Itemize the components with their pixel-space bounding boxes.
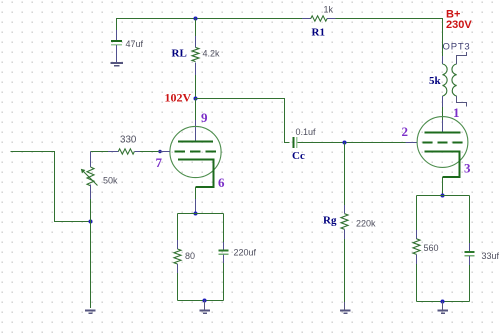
- svg-text:9: 9: [201, 110, 208, 125]
- tube V1 cathode: [178, 160, 214, 187]
- wire bypass ground stem: [204, 301, 206, 311]
- resistor 80 pin top: [177, 240, 179, 249]
- tube V2 grid (dashed): [423, 142, 463, 144]
- wire V2 network top rail: [417, 195, 470, 197]
- capacitor 47uf plates: [111, 41, 122, 45]
- resistor RL pin top: [195, 36, 197, 48]
- capacitor 33uf pin top: [469, 243, 471, 252]
- svg-text:Cc: Cc: [292, 150, 305, 162]
- resistor R1 1k zigzag: [311, 16, 327, 21]
- wire 330 to grid V1: [140, 151, 159, 153]
- ground V2 network: [438, 311, 449, 314]
- transformer OPT3 primary pin top: [442, 56, 444, 64]
- svg-text:Rg: Rg: [323, 215, 337, 227]
- wire bypass right branch bottom: [223, 263, 225, 301]
- junction Rg top node: [343, 141, 347, 145]
- pot 50k pin top: [90, 152, 92, 168]
- resistor 330 zigzag: [118, 149, 134, 154]
- wire plate node to Cc: [196, 99, 290, 143]
- transformer OPT3 secondary lead top: [457, 52, 467, 64]
- svg-text:50k: 50k: [103, 176, 118, 186]
- svg-text:2: 2: [402, 124, 409, 139]
- wire Rg to ground: [344, 239, 346, 303]
- wire plate lead tube V1: [195, 99, 197, 121]
- wire bypass bottom rail: [178, 300, 224, 302]
- tube V1 plate: [178, 141, 213, 143]
- ground under Rg: [340, 311, 351, 314]
- junction bypass ground: [203, 299, 207, 303]
- svg-text:220k: 220k: [356, 219, 376, 229]
- pin plate tube V2: [442, 120, 444, 133]
- resistor 560 pin top: [416, 230, 418, 239]
- wire Rg branch: [344, 143, 346, 207]
- resistor Rg pin bottom: [344, 229, 346, 239]
- resistor RL 4.2k zigzag: [192, 47, 199, 61]
- wire V2 network ground stem: [442, 302, 444, 311]
- capacitor Cc plates: [294, 137, 297, 148]
- tube V1 grid (dashed): [175, 151, 217, 153]
- tube V2 cathode: [425, 152, 460, 177]
- junction V2 network ground: [441, 300, 445, 304]
- wire V1 cathode to pin: [195, 187, 197, 200]
- svg-text:4.2k: 4.2k: [203, 49, 221, 59]
- wire V2 network left branch top: [416, 196, 418, 232]
- pin junction marker V1 grid: [158, 150, 161, 153]
- pot 50k wiper arrow: [81, 169, 98, 186]
- svg-text:1k: 1k: [324, 5, 334, 15]
- wire pot top to 330: [91, 151, 109, 153]
- svg-text:220uf: 220uf: [234, 248, 257, 258]
- junction top of RL: [194, 17, 198, 21]
- capacitor 47uf pin bottom: [116, 45, 118, 63]
- resistor 330 pin right: [134, 151, 140, 153]
- transformer OPT3 secondary lead bottom: [457, 96, 467, 107]
- capacitor 33uf plates: [465, 252, 475, 256]
- wire RL to 102V node: [195, 75, 197, 99]
- svg-text:80: 80: [185, 251, 195, 261]
- wire bypass right branch top: [223, 214, 225, 244]
- resistor R1 pin left: [302, 18, 311, 20]
- pin grid tube V1: [159, 151, 171, 153]
- svg-text:5k: 5k: [429, 75, 442, 87]
- pot 50k pin bottom: [90, 184, 92, 199]
- wire V2 network left branch bottom: [416, 264, 418, 302]
- wire down to RL: [195, 19, 197, 38]
- svg-text:230V: 230V: [446, 19, 472, 31]
- wire bypass network top rail: [178, 213, 224, 215]
- resistor 560 zigzag: [413, 239, 420, 255]
- transformer OPT3 secondary winding: [452, 64, 457, 96]
- resistor R1 pin right: [327, 18, 335, 20]
- svg-text:102V: 102V: [165, 91, 192, 105]
- ground under pot: [85, 311, 96, 314]
- capacitor 33uf pin bottom: [469, 256, 471, 265]
- ground under 47uf: [111, 63, 124, 66]
- tube V2 envelope: [417, 117, 468, 168]
- junction cathode network top: [194, 212, 198, 216]
- svg-text:3: 3: [464, 161, 471, 176]
- wire Cc to Rg node and V2 grid: [298, 142, 406, 144]
- tube V1 envelope: [170, 126, 221, 177]
- tube V1 cathode pin to bypass network: [195, 199, 197, 214]
- svg-text:OPT3: OPT3: [443, 42, 471, 53]
- transformer OPT3 primary pin bottom: [442, 96, 444, 107]
- resistor RL pin bottom: [195, 62, 197, 75]
- resistor 80 pin bottom: [177, 264, 179, 273]
- wire top bus left of R1: [117, 19, 303, 32]
- wire bypass left branch bottom: [177, 273, 179, 301]
- svg-text:0.1uf: 0.1uf: [296, 127, 317, 137]
- wire input left: [11, 152, 91, 222]
- junction 102V node: [194, 97, 198, 101]
- svg-text:33uf: 33uf: [482, 251, 500, 261]
- wire pot to ground: [90, 199, 92, 308]
- wire top bus right of R1: [336, 19, 443, 57]
- wire V2 cathode to network: [442, 177, 444, 196]
- svg-text:560: 560: [424, 243, 439, 253]
- wire V2 network right branch bottom: [469, 265, 471, 302]
- pin plate tube V1: [195, 120, 197, 142]
- wire V2 network bottom rail: [417, 301, 470, 303]
- resistor 330 pin left: [108, 151, 118, 153]
- svg-text:47uf: 47uf: [126, 39, 144, 49]
- junction pot bottom: [89, 220, 93, 224]
- wire V2 network right branch top: [469, 196, 471, 245]
- wire bypass left branch top: [177, 214, 179, 242]
- junction cathode V2 network top: [441, 194, 445, 198]
- resistor Rg pin top: [344, 205, 346, 214]
- pot 50k zigzag: [87, 167, 94, 186]
- ground bypass network: [200, 311, 211, 314]
- capacitor 220uf plates: [219, 251, 229, 255]
- svg-text:R1: R1: [312, 27, 325, 39]
- capacitor 220uf pin top: [223, 242, 225, 251]
- svg-text:7: 7: [156, 155, 163, 170]
- svg-text:6: 6: [218, 175, 225, 190]
- resistor Rg 220k zigzag: [341, 214, 348, 230]
- resistor 560 pin bottom: [416, 254, 418, 264]
- pin grid tube V2: [406, 142, 418, 144]
- capacitor 47uf pin top: [116, 30, 118, 41]
- svg-text:1: 1: [453, 105, 460, 120]
- svg-text:RL: RL: [172, 48, 187, 60]
- svg-text:330: 330: [120, 135, 137, 146]
- wire transformer to V2 plate: [442, 107, 444, 120]
- tube V2 plate: [425, 132, 461, 134]
- wire Rg ground stem: [344, 302, 346, 310]
- resistor 80 zigzag: [174, 249, 181, 264]
- capacitor 220uf pin bottom: [223, 255, 225, 263]
- transformer OPT3 primary winding: [443, 64, 448, 96]
